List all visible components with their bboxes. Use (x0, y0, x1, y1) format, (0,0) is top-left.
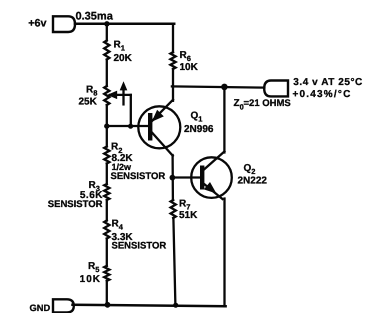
svg-text:20K: 20K (114, 53, 133, 64)
svg-text:SENSISTOR: SENSISTOR (112, 240, 167, 251)
svg-text:Q2: Q2 (244, 163, 256, 176)
svg-text:Z0: Z0 (234, 98, 244, 111)
svg-text:Q1: Q1 (191, 111, 203, 124)
svg-text:SENSISTOR: SENSISTOR (48, 199, 103, 210)
svg-text:GND: GND (30, 303, 51, 313)
svg-text:0.35ma: 0.35ma (76, 11, 114, 23)
svg-text:=21 OHMS: =21 OHMS (244, 98, 291, 109)
svg-text:R5: R5 (88, 261, 99, 274)
svg-text:R4: R4 (112, 218, 124, 231)
svg-text:2N996: 2N996 (184, 124, 214, 135)
svg-text:3.4 v AT 25°C: 3.4 v AT 25°C (293, 77, 363, 88)
svg-text:10K: 10K (80, 274, 101, 285)
svg-text:2N222: 2N222 (238, 176, 268, 187)
svg-text:+0.43%/°C: +0.43%/°C (293, 89, 352, 100)
svg-text:25K: 25K (79, 96, 98, 107)
svg-text:SENSISTOR: SENSISTOR (111, 171, 166, 182)
svg-text:+6v: +6v (28, 18, 46, 30)
svg-text:51K: 51K (179, 210, 198, 221)
svg-text:10K: 10K (180, 62, 199, 73)
svg-text:R1: R1 (114, 39, 125, 52)
